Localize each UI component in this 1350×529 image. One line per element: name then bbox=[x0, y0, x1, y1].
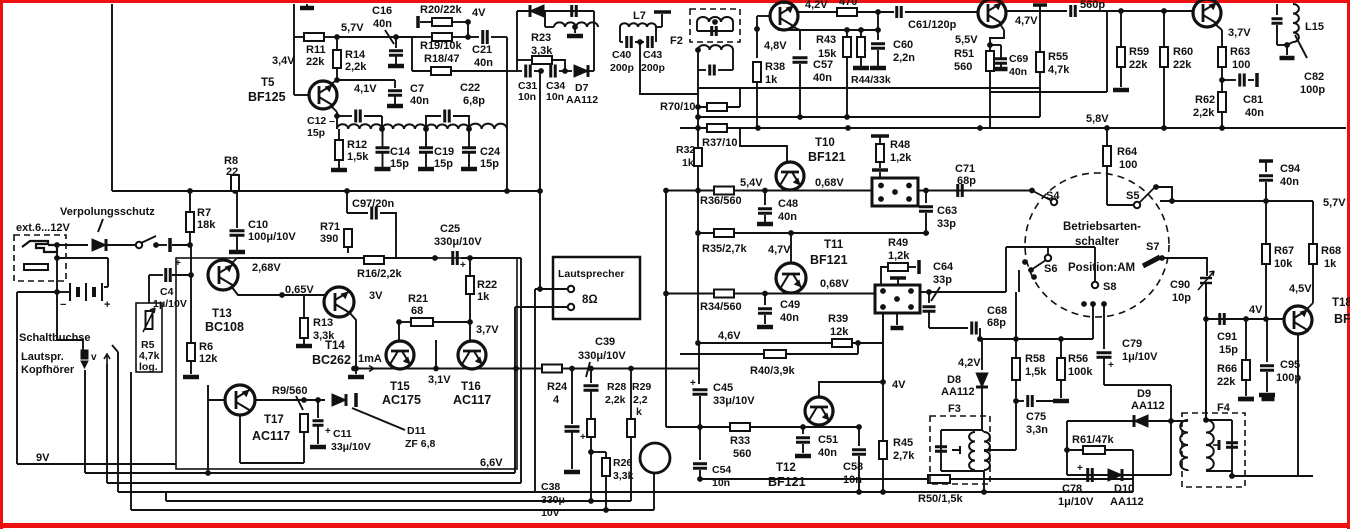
svg-text:1mA: 1mA bbox=[358, 353, 382, 365]
ground L15 bbox=[1280, 56, 1295, 61]
node rail row128 bbox=[695, 125, 701, 131]
switch S7 lever bbox=[1143, 257, 1160, 266]
wire F4 sec bottom bbox=[1187, 470, 1189, 471]
svg-text:40n: 40n bbox=[1280, 176, 1299, 188]
node T14 emitter row bbox=[353, 366, 359, 372]
node emitter x861 bbox=[858, 27, 864, 33]
svg-text:4,2V: 4,2V bbox=[958, 357, 981, 369]
wire F3 bottom bbox=[941, 470, 984, 472]
svg-text:1k: 1k bbox=[682, 157, 694, 169]
node osc bus corner bbox=[537, 188, 543, 194]
svg-text:5,5V: 5,5V bbox=[955, 34, 978, 46]
terminal block2 top bbox=[890, 276, 906, 280]
svg-text:100: 100 bbox=[1119, 159, 1137, 171]
svg-text:ext.6...12V: ext.6...12V bbox=[16, 222, 70, 234]
resistor R19 bbox=[432, 33, 452, 41]
capacitor C58 bbox=[852, 450, 866, 455]
inductor F3 sec bbox=[984, 432, 990, 470]
capacitor C68 bbox=[972, 322, 977, 335]
node row128 x848 bbox=[845, 125, 851, 131]
wire emitter drop bbox=[1221, 30, 1223, 47]
capacitor C71 bbox=[958, 184, 963, 197]
ground C11 bbox=[310, 445, 326, 450]
terminal L7 bbox=[654, 10, 671, 14]
wire R58 rail bbox=[1015, 292, 1017, 339]
S8 contact a bbox=[1081, 301, 1087, 307]
node row368 x436 bbox=[433, 366, 439, 372]
bus feedback 4 riser bbox=[165, 492, 167, 501]
wire F3 out bbox=[984, 449, 1016, 451]
wire R6 bottom bbox=[190, 361, 192, 374]
wire battery minus down bbox=[56, 245, 58, 292]
wire battery plus lead bbox=[104, 286, 108, 288]
wire C97 loop bbox=[347, 212, 368, 214]
wire T14 emitter bbox=[349, 312, 356, 369]
resistor R56 bbox=[1057, 358, 1065, 380]
wire T17 collector row bbox=[255, 399, 325, 401]
svg-text:68p: 68p bbox=[957, 175, 976, 187]
wire R22 bottom bbox=[469, 294, 471, 322]
ground R59 bbox=[1113, 88, 1129, 93]
wire T8 base rail bbox=[756, 16, 758, 58]
svg-text:Lautspr.: Lautspr. bbox=[21, 351, 64, 363]
svg-text:BC108: BC108 bbox=[205, 320, 244, 334]
capacitor C91 bbox=[1220, 313, 1225, 325]
node C75 bbox=[1013, 398, 1019, 404]
resistor R67 bbox=[1262, 244, 1270, 264]
wire R18 left bbox=[412, 70, 431, 72]
wire R19 right bbox=[452, 36, 468, 38]
wire plug tip to diode bbox=[57, 244, 88, 246]
node row339 a bbox=[977, 336, 983, 342]
wire R21 right bbox=[433, 321, 470, 323]
terminal speaker 1 bbox=[568, 286, 574, 292]
capacitor C54 bbox=[693, 464, 707, 469]
svg-text:C21: C21 bbox=[472, 44, 492, 56]
resistor R20 bbox=[432, 18, 452, 26]
resistor R68 bbox=[1309, 244, 1317, 264]
resistor R55 bbox=[1036, 52, 1044, 72]
svg-text:C90: C90 bbox=[1170, 279, 1190, 291]
wire R51 top bbox=[989, 45, 991, 51]
wire gnd F4 a bbox=[1246, 397, 1248, 399]
wire 5,7V row bbox=[337, 36, 417, 38]
wire F2b right down bbox=[732, 50, 734, 70]
node row128 x758 bbox=[755, 125, 761, 131]
wire C48 stem bbox=[764, 191, 766, 206]
svg-text:0,68V: 0,68V bbox=[815, 177, 844, 189]
node row368 x631 bbox=[628, 366, 634, 372]
svg-text:+: + bbox=[1077, 463, 1083, 474]
wire battery to 9V rail bbox=[56, 292, 58, 340]
svg-text:R38: R38 bbox=[765, 61, 785, 73]
capacitor C64c bbox=[923, 307, 936, 312]
wire T8 emitter bbox=[793, 27, 800, 30]
diode D11 terminal bbox=[354, 393, 358, 407]
capacitor C82c bbox=[1272, 19, 1283, 24]
capacitor C31 bbox=[526, 65, 531, 78]
svg-text:10n: 10n bbox=[843, 474, 862, 486]
wire pot top to C4 bbox=[148, 275, 150, 303]
svg-text:R35/2,7k: R35/2,7k bbox=[702, 243, 748, 255]
wire ladder out bbox=[506, 129, 508, 191]
wire top gnd stub bbox=[306, 4, 308, 8]
svg-text:C49: C49 bbox=[780, 299, 800, 311]
svg-text:33p: 33p bbox=[937, 218, 956, 230]
svg-text:200p: 200p bbox=[641, 62, 665, 74]
transistor T18 bbox=[1284, 306, 1312, 334]
wire T5 base bbox=[294, 94, 309, 96]
svg-text:1,2k: 1,2k bbox=[890, 152, 912, 164]
wire T18 emitter down bbox=[1297, 334, 1299, 470]
node caprow bbox=[538, 68, 544, 74]
node row368 x572 bbox=[569, 366, 575, 372]
wire R11 right bbox=[324, 36, 337, 38]
svg-text:Kopfhörer: Kopfhörer bbox=[21, 364, 75, 376]
row R50 bbox=[700, 478, 1133, 480]
transistor T10b bbox=[1193, 0, 1221, 27]
svg-text:BF1: BF1 bbox=[1334, 312, 1350, 326]
wire C64 bottom bbox=[928, 312, 930, 328]
resistor R60 bbox=[1160, 47, 1168, 67]
wire loop left vert bbox=[516, 11, 518, 71]
wire C54 top bbox=[699, 427, 701, 460]
node ladder c bbox=[466, 126, 472, 132]
svg-text:10k: 10k bbox=[1274, 258, 1293, 270]
svg-text:C54: C54 bbox=[712, 464, 731, 476]
wire C7 bottom bbox=[394, 96, 396, 104]
row C91 bbox=[1206, 318, 1285, 320]
svg-text:C60: C60 bbox=[893, 39, 913, 51]
wire T18 emitter corner bbox=[1298, 470, 1313, 476]
svg-text:3,7V: 3,7V bbox=[1228, 27, 1251, 39]
node base bus bbox=[205, 470, 211, 476]
ground C16 bbox=[388, 64, 404, 69]
node tank bbox=[1284, 42, 1290, 48]
wire C94 stem bbox=[1265, 161, 1267, 172]
transistor T13 bbox=[208, 260, 238, 290]
svg-text:C79: C79 bbox=[1122, 338, 1142, 350]
wire C82 bottom bbox=[1276, 25, 1278, 45]
svg-text:T11: T11 bbox=[824, 239, 844, 251]
svg-text:S8: S8 bbox=[1103, 281, 1116, 293]
svg-text:+: + bbox=[325, 426, 331, 437]
svg-text:R21: R21 bbox=[408, 293, 428, 305]
svg-text:10n: 10n bbox=[546, 91, 564, 103]
wire R12 bottom bbox=[338, 160, 340, 168]
capacitor C25 bbox=[453, 251, 458, 265]
wire R38 bottom bbox=[756, 82, 758, 128]
wire L7 term bbox=[661, 14, 663, 27]
node bus x190 bbox=[187, 188, 193, 194]
svg-text:BF121: BF121 bbox=[808, 150, 846, 164]
capacitor F4 tune bbox=[1226, 443, 1238, 448]
svg-text:T18: T18 bbox=[1332, 297, 1350, 309]
resistor R32 bbox=[694, 148, 702, 166]
svg-text:C22: C22 bbox=[460, 82, 480, 94]
wire R62 top bbox=[1221, 80, 1223, 92]
wire C4 left bbox=[149, 274, 163, 276]
wire R14 top bbox=[336, 37, 338, 50]
svg-text:4,2V: 4,2V bbox=[805, 0, 828, 11]
svg-text:BC262: BC262 bbox=[312, 353, 351, 367]
resistor R24 bbox=[542, 365, 562, 373]
node x667 bbox=[663, 291, 669, 297]
node C91 row bbox=[1203, 316, 1209, 322]
wire R51 bottom bbox=[989, 71, 991, 128]
svg-text:22k: 22k bbox=[306, 56, 325, 68]
capacitor C63 bbox=[919, 207, 933, 212]
terminal C81 bbox=[1255, 73, 1259, 87]
svg-text:R32: R32 bbox=[676, 144, 695, 156]
node T14 base row bbox=[279, 292, 285, 298]
resistor R7 bbox=[186, 212, 194, 232]
node caprow b bbox=[562, 68, 568, 74]
svg-text:4V: 4V bbox=[892, 379, 906, 391]
svg-text:+: + bbox=[460, 260, 466, 271]
svg-text:100p: 100p bbox=[1300, 84, 1325, 96]
node y117 x800 bbox=[797, 114, 803, 120]
svg-text:40n: 40n bbox=[1009, 66, 1027, 78]
svg-text:C75: C75 bbox=[1026, 411, 1046, 423]
resistor R61 bbox=[1083, 446, 1105, 454]
terminal R20 input bbox=[416, 16, 420, 28]
capacitor C24 bbox=[462, 148, 476, 153]
wire F4 feed top bbox=[1205, 283, 1207, 420]
wire C68 right bbox=[979, 328, 981, 339]
wire F3 out up bbox=[1015, 401, 1017, 450]
svg-text:Lautsprecher: Lautsprecher bbox=[558, 268, 625, 280]
svg-text:R63: R63 bbox=[1230, 46, 1250, 58]
resistor R11 bbox=[304, 33, 324, 41]
switch S6 lever bbox=[1031, 260, 1046, 270]
wire R19 left bbox=[417, 36, 432, 38]
filter block FI2 bbox=[875, 285, 920, 313]
block2 pin e bbox=[894, 296, 900, 302]
svg-text:R71: R71 bbox=[320, 221, 340, 233]
wire C39 to R28 bbox=[590, 391, 592, 419]
wire C39 stem bbox=[590, 369, 592, 384]
resistor R23 bbox=[532, 56, 552, 64]
wire C69 stem bbox=[1000, 45, 1002, 58]
wire C7 stem bbox=[394, 80, 396, 88]
resistor R63 bbox=[1218, 47, 1226, 67]
wire C90 down bbox=[1205, 283, 1207, 421]
wire C58 top bbox=[858, 427, 860, 446]
resistor R35 bbox=[714, 229, 734, 237]
node bus x347 bbox=[344, 188, 350, 194]
node C16 top bbox=[393, 34, 399, 40]
node row233 left bbox=[695, 230, 701, 236]
ground R56 bbox=[1053, 399, 1069, 404]
node row201 b bbox=[1263, 198, 1269, 204]
wire top-left vertical drop bbox=[111, 4, 113, 191]
svg-text:C94: C94 bbox=[1280, 163, 1301, 175]
node plug contact2 bbox=[54, 255, 60, 261]
wire R21 node down bbox=[469, 322, 471, 341]
capacitor C81 bbox=[1240, 74, 1245, 87]
ground C24 bbox=[461, 167, 477, 172]
wire R60 top bbox=[1163, 11, 1165, 47]
wire R12 top bbox=[338, 129, 340, 140]
wire R43 bottom bbox=[846, 57, 848, 117]
wire R29 top bbox=[630, 369, 632, 420]
wire C11 stem bbox=[317, 400, 319, 418]
svg-text:22k: 22k bbox=[1217, 376, 1236, 388]
wire R32 bottom bbox=[697, 166, 699, 191]
svg-text:C97/20n: C97/20n bbox=[352, 198, 394, 210]
node C49 top bbox=[762, 291, 768, 297]
resistor R13 bbox=[300, 318, 308, 338]
terminal R48 block bbox=[872, 168, 888, 172]
capacitor C14 bbox=[376, 148, 390, 153]
node row R36 left bbox=[663, 188, 669, 194]
wire left rail top bbox=[17, 291, 57, 293]
node emitter x878 bbox=[875, 27, 881, 33]
inductor L3 bbox=[426, 124, 469, 129]
svg-text:200p: 200p bbox=[610, 62, 634, 74]
wire T10b emitter bbox=[1215, 24, 1222, 30]
S8 contact b bbox=[1090, 301, 1096, 307]
svg-text:C16: C16 bbox=[372, 5, 392, 17]
row block1 out bbox=[918, 190, 1032, 192]
pointer line Verpolungsschutz bbox=[98, 219, 103, 232]
svg-text:4: 4 bbox=[553, 394, 560, 406]
svg-text:4,8V: 4,8V bbox=[764, 40, 787, 52]
svg-text:1,5k: 1,5k bbox=[1025, 366, 1047, 378]
resistor R48 bbox=[876, 144, 884, 162]
row 247 bbox=[1006, 246, 1095, 248]
wire earpiece bottom bbox=[653, 473, 655, 510]
block1 pin e bbox=[892, 189, 898, 195]
wire F2a left bbox=[696, 22, 698, 31]
svg-text:T13: T13 bbox=[212, 308, 232, 320]
capacitor C21 bbox=[483, 30, 488, 44]
wire C43 right bbox=[655, 27, 657, 42]
wire F4 right bbox=[1231, 420, 1233, 471]
wire loop left bbox=[411, 37, 413, 71]
svg-text:15p: 15p bbox=[434, 158, 453, 170]
block2 pin c bbox=[880, 304, 886, 310]
svg-text:40n: 40n bbox=[778, 211, 797, 223]
node R7 bottom bbox=[187, 242, 193, 248]
capacitor C60 bbox=[871, 44, 885, 49]
block1 pin b bbox=[906, 183, 912, 189]
svg-text:100: 100 bbox=[1232, 59, 1250, 71]
svg-text:2,2k: 2,2k bbox=[605, 394, 626, 406]
wire T12 collector bbox=[819, 382, 883, 397]
wire 4V link bbox=[467, 22, 469, 37]
capacitor C7 bbox=[388, 91, 402, 96]
svg-text:Position:AM: Position:AM bbox=[1068, 262, 1135, 274]
svg-text:560: 560 bbox=[733, 448, 751, 460]
svg-text:C71: C71 bbox=[955, 163, 975, 175]
resistor R16 bbox=[364, 256, 384, 264]
node row128 x1164 bbox=[1161, 125, 1167, 131]
capacitor C39 cap bbox=[584, 386, 599, 391]
wire C19 top bbox=[425, 129, 427, 147]
node row368 x354 bbox=[351, 366, 357, 372]
svg-text:T10: T10 bbox=[815, 137, 835, 149]
wire R71 bottom bbox=[347, 247, 349, 253]
svg-text:1k: 1k bbox=[1324, 258, 1337, 270]
wire y117 right up bbox=[1039, 88, 1041, 117]
node row258 x435 bbox=[432, 255, 438, 261]
resistor R36 bbox=[714, 187, 734, 195]
filter F2 box bbox=[690, 9, 740, 42]
svg-text:R33: R33 bbox=[730, 435, 750, 447]
node F2b left bbox=[695, 47, 701, 53]
ground top stub bbox=[300, 6, 314, 11]
ground T14 emitter bbox=[348, 375, 364, 380]
wire 560p rail up bbox=[1106, 11, 1108, 92]
svg-text:22k: 22k bbox=[1129, 59, 1148, 71]
wire emitter to ladder bbox=[336, 116, 338, 129]
node 4V bbox=[880, 379, 886, 385]
switch S5 pivot bbox=[1134, 202, 1140, 208]
svg-text:R61/47k: R61/47k bbox=[1072, 434, 1114, 446]
wire R60 bottom bbox=[1163, 67, 1165, 128]
node F3 bottom bbox=[981, 489, 987, 495]
resistor R9 bbox=[300, 414, 308, 432]
wire tank join bbox=[1277, 44, 1287, 46]
svg-text:40n: 40n bbox=[373, 18, 392, 30]
row 368 right bbox=[516, 368, 700, 370]
node C60 x878 y12 bbox=[875, 9, 881, 15]
svg-text:3,1V: 3,1V bbox=[428, 374, 451, 386]
svg-text:T15: T15 bbox=[390, 381, 410, 393]
wire T8 collector out bbox=[798, 11, 837, 13]
wire D8 top bbox=[981, 339, 983, 370]
wire R9 bottom bbox=[303, 432, 305, 463]
bus feedback 1 bbox=[85, 472, 515, 474]
inductor L4 bbox=[469, 124, 507, 129]
wire T8 collector bbox=[783, 2, 785, 4]
node R67 bottom bbox=[1263, 316, 1269, 322]
svg-text:T17: T17 bbox=[264, 414, 284, 426]
S6 contact a bbox=[1022, 259, 1028, 265]
svg-text:R56: R56 bbox=[1068, 353, 1088, 365]
node R26 bus bbox=[603, 507, 609, 513]
capacitor F2b bbox=[710, 65, 715, 76]
svg-text:100k: 100k bbox=[1068, 366, 1093, 378]
wire jack contact3 down bbox=[117, 352, 119, 492]
ground R12 bbox=[331, 168, 347, 173]
wire C19 bottom bbox=[425, 153, 427, 167]
capacitor C80 bbox=[1071, 5, 1076, 17]
svg-text:D10: D10 bbox=[1114, 483, 1134, 495]
svg-text:5,8V: 5,8V bbox=[1086, 113, 1109, 125]
svg-text:BF121: BF121 bbox=[810, 253, 848, 267]
svg-text:R60: R60 bbox=[1173, 46, 1193, 58]
switch S8 pivot bbox=[1092, 282, 1098, 288]
filter F4 box bbox=[1182, 413, 1245, 487]
svg-text:C40: C40 bbox=[612, 49, 631, 61]
node ladder b bbox=[423, 126, 429, 132]
wire L6 tap down bbox=[574, 27, 576, 33]
svg-text:4V: 4V bbox=[472, 7, 486, 19]
capacitor C97 bbox=[372, 207, 377, 220]
wire F3 left bbox=[940, 430, 942, 471]
wire switch to terminal bbox=[158, 244, 167, 246]
bus feedback 4 bbox=[166, 500, 631, 502]
wire caprow b bbox=[559, 70, 565, 72]
svg-text:330μ/10V: 330μ/10V bbox=[578, 350, 626, 362]
wire R48 bottom bbox=[879, 162, 881, 168]
resistor R71 bbox=[344, 229, 352, 247]
svg-text:S5: S5 bbox=[1126, 190, 1139, 202]
wire emitter row463 bbox=[240, 462, 304, 464]
